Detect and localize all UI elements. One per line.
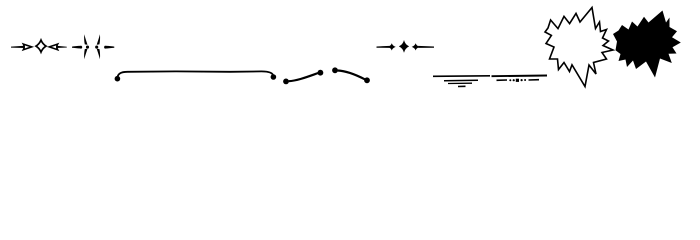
dot row — [509, 79, 511, 81]
right fleuron dash — [104, 46, 114, 49]
ornament D: two swash strokes with ball ends — [283, 67, 370, 84]
wire right — [56, 46, 67, 48]
wire right — [418, 46, 434, 48]
swash 1 wire — [289, 73, 319, 81]
swash 2 left ball — [332, 67, 338, 73]
solid arrowhead pointing right — [388, 43, 396, 50]
open arrowhead pointing left — [49, 44, 57, 50]
left fleuron upper blade — [84, 34, 87, 45]
ornament E: solid diamond rule divider — [377, 40, 435, 53]
right fleuron upper blade — [97, 34, 100, 45]
open diamond — [36, 40, 46, 52]
ornament H: solid burst star — [613, 11, 681, 78]
rule line 2 — [444, 79, 478, 82]
right dash left — [497, 79, 508, 81]
left ball — [115, 76, 121, 82]
right fleuron dot — [95, 46, 98, 49]
swash 2 right ball — [364, 77, 370, 83]
rule line 3 — [448, 82, 472, 84]
swash 2 wire — [338, 71, 365, 80]
wire rule — [118, 71, 274, 78]
right fleuron lower blade — [97, 49, 100, 60]
ornament A: open diamond rule divider — [11, 40, 67, 52]
right ball — [271, 74, 277, 80]
left fleuron dot — [86, 46, 89, 49]
solid diamond — [399, 40, 409, 53]
ornament F: layered rule lines — [433, 76, 547, 87]
ornament B: facing fleurons — [72, 34, 114, 59]
ornament G: outlined burst star — [545, 8, 613, 87]
rule line 1 — [433, 75, 490, 78]
wire left — [377, 46, 390, 48]
right rule line — [492, 75, 548, 78]
swash 1 right ball — [318, 70, 324, 76]
left fleuron dash — [72, 46, 82, 49]
ornament C: long rule with curled ball ends — [115, 71, 277, 81]
left fleuron lower blade — [84, 49, 87, 60]
right dash right — [529, 79, 540, 81]
swash 1 left ball — [283, 79, 289, 85]
rule dash — [458, 85, 466, 87]
open arrowhead pointing right — [23, 44, 31, 50]
solid arrowhead pointing left — [412, 43, 420, 50]
wire left — [11, 46, 25, 48]
